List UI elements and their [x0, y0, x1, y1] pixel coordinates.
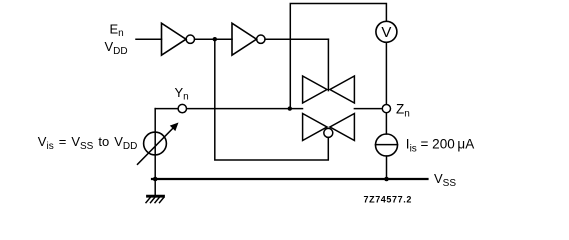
svg-text:Vis = VSS to VDD: Vis = VSS to VDD — [38, 134, 138, 152]
svg-text:VSS: VSS — [434, 171, 456, 189]
svg-text:Iis = 200 μA: Iis = 200 μA — [406, 137, 474, 155]
svg-text:V: V — [381, 24, 391, 41]
svg-text:En: En — [110, 21, 124, 39]
svg-text:Zn: Zn — [396, 102, 410, 120]
svg-text:Yn: Yn — [175, 85, 189, 103]
svg-text:VDD: VDD — [105, 39, 128, 57]
svg-text:7Z74577.2: 7Z74577.2 — [364, 195, 412, 205]
